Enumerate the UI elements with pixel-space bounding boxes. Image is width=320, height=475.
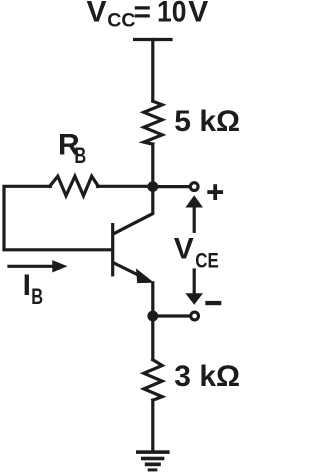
wire R1 to node C: [151, 144, 154, 187]
svg-text:V: V: [87, 0, 107, 29]
transistor Q1 collector: [114, 187, 153, 234]
transistor Q1 emitter arrowhead: [136, 268, 154, 283]
wire rail to R1: [151, 40, 154, 101]
IB arrowhead: [52, 260, 67, 272]
resistor RB: [50, 176, 99, 196]
svg-text:3 kΩ: 3 kΩ: [174, 360, 240, 393]
Vce arrowhead up: [185, 195, 203, 207]
ground bar 3: [145, 463, 161, 467]
wire RB right lead to node C: [98, 185, 153, 188]
wire node C to terminal plus: [153, 185, 189, 188]
node C junction dot: [147, 181, 158, 192]
power rail Vcc: [135, 38, 171, 41]
Vce arrowhead down: [185, 293, 203, 305]
minus sign: [205, 301, 221, 305]
resistor R1 5 kOhm: [144, 101, 162, 144]
svg-text:V: V: [174, 233, 194, 266]
resistor R2 3 kOhm: [144, 360, 162, 401]
wire emitter to node E: [151, 283, 154, 316]
ground bar 2: [141, 457, 164, 461]
Vce arrow upper shaft: [193, 207, 196, 232]
svg-text:5 kΩ: 5 kΩ: [174, 105, 240, 138]
ground bar 1: [136, 450, 170, 454]
svg-text:CE: CE: [195, 249, 219, 272]
ground bar 4: [148, 468, 158, 471]
wire RB left lead around to base: [4, 186, 111, 250]
wire node E to R2: [151, 316, 154, 360]
transistor Q1 base bar: [111, 225, 114, 275]
terminal circle minus: [191, 312, 199, 320]
svg-text:=: =: [134, 0, 152, 29]
svg-text:V: V: [188, 0, 208, 29]
Vce arrow lower shaft: [193, 270, 196, 295]
wire R2 to ground: [151, 400, 154, 450]
svg-text:B: B: [31, 284, 43, 309]
terminal circle plus: [190, 183, 198, 191]
wire node E to terminal minus: [153, 314, 190, 317]
svg-text:B: B: [74, 143, 86, 168]
transistor Q1 emitter: [114, 263, 143, 277]
IB arrow shaft: [9, 265, 54, 268]
svg-text:CC: CC: [107, 10, 135, 32]
svg-text:I: I: [23, 269, 31, 302]
node E junction dot: [147, 311, 158, 322]
plus sign: [207, 190, 223, 194]
svg-text:10: 10: [157, 0, 187, 29]
